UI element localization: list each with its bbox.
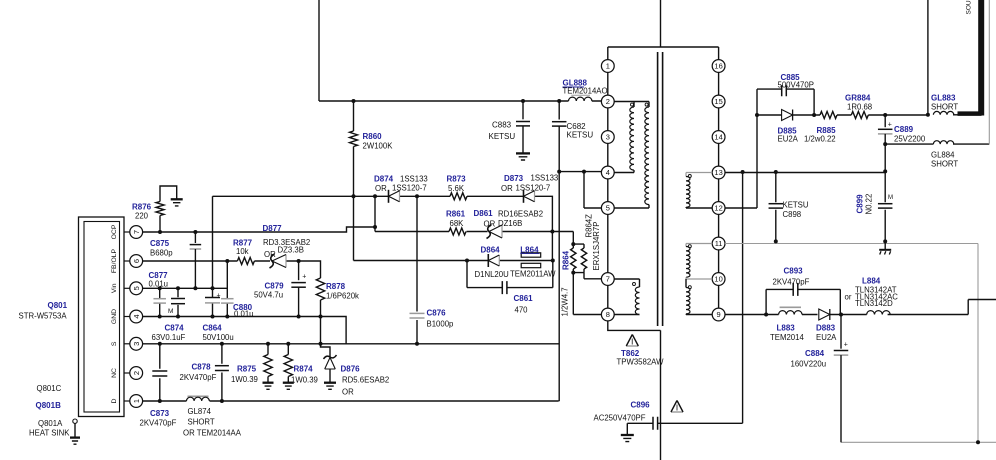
transformer pin 2 bbox=[601, 95, 614, 108]
svg-text:160V220u: 160V220u bbox=[791, 360, 827, 369]
wire pin9 output line bbox=[725, 300, 996, 315]
capacitor C889 (polarized) bbox=[884, 115, 886, 127]
svg-text:5.6K: 5.6K bbox=[448, 184, 465, 193]
resistor R874 bbox=[287, 344, 289, 355]
svg-text:C876: C876 bbox=[427, 309, 447, 318]
primary winding pin2-pin5 bbox=[645, 107, 649, 205]
transformer pin 14 bbox=[712, 131, 725, 144]
svg-text:ERX1SJ4R7P: ERX1SJ4R7P bbox=[592, 222, 601, 271]
svg-text:R875: R875 bbox=[237, 365, 257, 374]
svg-text:TEM2014AO: TEM2014AO bbox=[563, 87, 608, 96]
transformer pin 1 bbox=[601, 60, 614, 73]
junction C682 top bbox=[557, 99, 561, 103]
junction GL884 tap bbox=[883, 142, 887, 146]
resistor R860 bbox=[353, 101, 355, 131]
svg-text:NC: NC bbox=[111, 368, 118, 378]
svg-text:R860: R860 bbox=[363, 132, 383, 141]
capacitor C883 bbox=[522, 101, 524, 119]
svg-text:1W0.39: 1W0.39 bbox=[291, 376, 318, 385]
svg-text:2: 2 bbox=[132, 371, 141, 375]
wire x552 vertical to L864 row bbox=[551, 232, 553, 261]
svg-text:KETSU: KETSU bbox=[783, 201, 809, 210]
wire C896 riser bbox=[742, 172, 744, 423]
junction D885 cathode net bbox=[812, 113, 816, 117]
junction pin13 line at C898 bbox=[774, 170, 778, 174]
junction pin4 line at long vertical bbox=[557, 170, 561, 174]
svg-text:B1000p: B1000p bbox=[427, 320, 455, 329]
svg-text:C899: C899 bbox=[856, 194, 865, 214]
svg-text:TEM2011AW: TEM2011AW bbox=[510, 270, 556, 279]
svg-text:16: 16 bbox=[714, 62, 722, 71]
capacitor C874 bbox=[177, 288, 179, 316]
transformer pin 9 bbox=[712, 308, 725, 321]
svg-text:KETSU: KETSU bbox=[567, 131, 594, 140]
junction C874 top bbox=[176, 286, 180, 290]
IC pin 2 circle bbox=[130, 367, 143, 380]
junction C899 bottom bbox=[883, 239, 887, 243]
svg-text:OR: OR bbox=[484, 220, 496, 229]
junction R876 bottom on OCP line bbox=[158, 230, 162, 234]
wire rail from C864 vertical to D874 row bbox=[213, 196, 553, 231]
transformer pin 15 bbox=[712, 95, 725, 108]
svg-text:TPW3582AW: TPW3582AW bbox=[617, 358, 665, 367]
wire pin11 gray line bbox=[725, 243, 978, 245]
svg-text:R861: R861 bbox=[446, 210, 466, 219]
svg-text:+: + bbox=[217, 293, 221, 300]
primary winding pin2-pin4 bbox=[630, 107, 634, 170]
transformer pin 10 bbox=[712, 273, 725, 286]
svg-text:GL884: GL884 bbox=[931, 151, 955, 160]
junction C875 bottom on Vin line bbox=[193, 286, 197, 290]
snubber loop C885 bbox=[757, 89, 814, 115]
wire pins 1-16 top tee bbox=[608, 46, 719, 48]
svg-text:1: 1 bbox=[132, 399, 141, 403]
svg-text:C861: C861 bbox=[514, 294, 534, 303]
svg-text:7: 7 bbox=[606, 275, 610, 284]
junction C880 top on FB line bbox=[225, 259, 229, 263]
svg-text:9: 9 bbox=[717, 310, 721, 319]
svg-text:2KV470pF: 2KV470pF bbox=[773, 278, 810, 287]
transformer pin 7 bbox=[601, 273, 614, 286]
svg-text:C896: C896 bbox=[631, 401, 651, 410]
secondary winding pin10-pin9 bbox=[685, 279, 687, 288]
svg-text:C893: C893 bbox=[784, 267, 804, 276]
transformer pin 8 bbox=[601, 308, 614, 321]
svg-text:+: + bbox=[844, 342, 848, 349]
svg-text:12: 12 bbox=[714, 204, 722, 213]
svg-text:10: 10 bbox=[714, 275, 722, 284]
junction big vertical at Vin line bbox=[211, 286, 215, 290]
diode D864 bbox=[487, 254, 489, 267]
wire pin7 stub to winding bbox=[614, 279, 639, 287]
junction R878 at GND line bbox=[319, 315, 323, 319]
svg-text:B680p: B680p bbox=[150, 249, 173, 258]
svg-text:68K: 68K bbox=[450, 219, 465, 228]
svg-text:R885: R885 bbox=[817, 126, 837, 135]
warning triangle at C896 bbox=[671, 411, 683, 413]
wire GND pin4 line with jog down to S level bbox=[143, 317, 347, 344]
diode D873 bbox=[523, 190, 525, 203]
resistor R878 bbox=[316, 278, 324, 300]
junction C861 tap bbox=[465, 259, 469, 263]
svg-text:EU2A: EU2A bbox=[816, 333, 837, 342]
zener diode D876 vertical bbox=[324, 355, 337, 359]
svg-text:C874: C874 bbox=[165, 324, 185, 333]
inductor GL883 bbox=[933, 111, 953, 114]
thick output bus stub bbox=[958, 111, 982, 116]
svg-text:2KV470pF: 2KV470pF bbox=[140, 419, 177, 428]
wire primary box left edge bbox=[318, 0, 320, 101]
svg-text:3: 3 bbox=[132, 342, 141, 346]
svg-text:AC250V470PF: AC250V470PF bbox=[594, 414, 646, 423]
junction C878 bottom bbox=[220, 399, 224, 403]
svg-text:4: 4 bbox=[132, 314, 141, 318]
capacitor C898 bbox=[775, 172, 777, 241]
junction C879 bottom bbox=[297, 315, 301, 319]
svg-text:C879: C879 bbox=[265, 282, 285, 291]
svg-text:D873: D873 bbox=[504, 174, 524, 183]
svg-text:1R0.68: 1R0.68 bbox=[847, 103, 872, 112]
svg-text:50V4.7u: 50V4.7u bbox=[254, 291, 283, 300]
svg-text:S: S bbox=[111, 341, 118, 346]
svg-text:R876: R876 bbox=[132, 203, 152, 212]
svg-text:1/2W4.7: 1/2W4.7 bbox=[561, 287, 570, 316]
transformer pin 13 bbox=[712, 166, 725, 179]
wire top feed vertical to transformer bbox=[660, 0, 662, 47]
svg-text:6: 6 bbox=[132, 259, 141, 263]
svg-text:SOUND: SOUND bbox=[966, 0, 973, 15]
resistor R876 bbox=[159, 216, 161, 233]
capacitor C873 bbox=[159, 344, 161, 401]
svg-text:GL883: GL883 bbox=[931, 94, 956, 103]
svg-text:TEM2014: TEM2014 bbox=[770, 333, 804, 342]
capacitor C861 branch bbox=[467, 261, 553, 288]
capacitor C899 bbox=[884, 171, 886, 241]
svg-text:0.01u: 0.01u bbox=[149, 280, 169, 289]
svg-text:Q801: Q801 bbox=[48, 301, 68, 310]
junction C873 top bbox=[158, 342, 162, 346]
junction D861 row at x552 bbox=[550, 230, 554, 234]
snubber loop C893 bbox=[766, 289, 840, 314]
resistor R864 (parallel pair) bbox=[571, 248, 576, 269]
svg-text:25V2200: 25V2200 bbox=[894, 134, 926, 143]
svg-text:3: 3 bbox=[606, 133, 610, 142]
svg-text:EU2A: EU2A bbox=[778, 135, 799, 144]
junction R875 top bbox=[266, 342, 270, 346]
zener diode D877 bbox=[270, 254, 275, 268]
svg-text:L883: L883 bbox=[777, 324, 796, 333]
wire secondary main line bbox=[757, 114, 928, 116]
svg-text:1: 1 bbox=[606, 62, 610, 71]
wire gray loop bottom bbox=[841, 441, 996, 443]
ground below C883 bbox=[516, 152, 530, 154]
svg-text:50V100u: 50V100u bbox=[203, 333, 234, 342]
IC pin 3 lead bbox=[124, 343, 130, 345]
junction C883 top bbox=[521, 99, 525, 103]
svg-text:D: D bbox=[111, 398, 118, 403]
junction GL883 left bbox=[926, 113, 930, 117]
svg-text:C875: C875 bbox=[150, 239, 170, 248]
junction R874 top bbox=[286, 342, 290, 346]
svg-text:5: 5 bbox=[606, 204, 610, 213]
svg-text:OR TEM2014AA: OR TEM2014AA bbox=[183, 429, 242, 438]
junction C873 bottom bbox=[158, 399, 162, 403]
svg-text:TLN3142D: TLN3142D bbox=[855, 299, 893, 308]
transformer pin 4 bbox=[601, 166, 614, 179]
wire top rail node from box to GL888 bbox=[319, 100, 601, 102]
diode D883 bbox=[829, 309, 831, 320]
wire pin13 output ground line bbox=[725, 172, 885, 174]
svg-text:D874: D874 bbox=[374, 175, 394, 184]
junction R864 bottom jog bbox=[571, 271, 575, 275]
capacitor C877 bbox=[159, 288, 161, 316]
capacitor C864 (polarized) bbox=[205, 297, 220, 299]
junction OCP jog to loop vertical bbox=[373, 225, 377, 229]
svg-text:11: 11 bbox=[715, 239, 723, 248]
IC pin 6 circle bbox=[130, 255, 143, 268]
wire D864-L864 row from R860 vertical bbox=[354, 196, 553, 260]
winding polarity dot primary 2 bbox=[645, 103, 648, 106]
ground heat sink bbox=[70, 436, 80, 438]
svg-text:R874: R874 bbox=[294, 365, 314, 374]
chassis ground below pin11 line bbox=[884, 241, 886, 249]
inductor GL874 with short bar bbox=[188, 395, 209, 397]
svg-text:OR: OR bbox=[342, 388, 354, 397]
svg-text:10k: 10k bbox=[236, 247, 249, 256]
svg-text:Q801A: Q801A bbox=[38, 419, 63, 428]
ferrite bead L864 (two bars) bbox=[521, 253, 541, 257]
IC pin 3 circle bbox=[130, 337, 143, 350]
svg-text:8: 8 bbox=[606, 310, 610, 319]
svg-text:OR: OR bbox=[264, 250, 276, 259]
svg-text:OR: OR bbox=[375, 184, 387, 193]
svg-text:1SS120-7: 1SS120-7 bbox=[392, 183, 427, 192]
winding polarity dot pin7 winding bbox=[633, 283, 636, 286]
wire R864 jog to pin 7 bbox=[584, 273, 601, 279]
junction pin13 line at C889 vertical bbox=[883, 169, 887, 173]
svg-text:4: 4 bbox=[606, 168, 610, 177]
svg-text:+: + bbox=[302, 274, 306, 281]
ground below R875 bbox=[263, 382, 274, 384]
svg-text:C873: C873 bbox=[150, 409, 170, 418]
wire top-right thin vertical bbox=[927, 0, 929, 115]
junction rail/C876 top bbox=[415, 194, 419, 198]
wire pin4 stub bbox=[614, 172, 634, 174]
svg-text:C883: C883 bbox=[492, 121, 512, 130]
svg-text:2: 2 bbox=[606, 97, 610, 106]
transformer pin 3 bbox=[601, 131, 614, 144]
junction C893 left bbox=[764, 313, 768, 317]
capacitor C896 bbox=[627, 423, 742, 434]
svg-text:7: 7 bbox=[132, 230, 141, 234]
IC pin 1 lead bbox=[124, 400, 130, 402]
svg-text:2KV470pF: 2KV470pF bbox=[180, 373, 217, 382]
resistor R873 bbox=[450, 193, 467, 200]
resistor GR884 bbox=[851, 112, 868, 119]
resistor R875 bbox=[267, 344, 269, 355]
winding polarity dot primary 1 bbox=[631, 103, 634, 106]
inductor L884 bbox=[867, 311, 890, 315]
IC pin 7 circle bbox=[130, 226, 143, 239]
junction R860 top bbox=[352, 99, 356, 103]
wire S pin3 line bbox=[143, 343, 560, 345]
svg-text:N0.22: N0.22 bbox=[865, 194, 874, 215]
wire FB/OLP pin6 line bbox=[143, 261, 321, 278]
IC Q801 inner box bbox=[84, 222, 120, 413]
wire D pin1 line bbox=[143, 400, 559, 402]
svg-text:D876: D876 bbox=[341, 365, 361, 374]
IC pin 5 lead bbox=[124, 287, 130, 289]
resistor R885 bbox=[820, 112, 837, 119]
junction C880 bottom bbox=[225, 315, 229, 319]
IC pin 6 lead bbox=[124, 260, 130, 262]
junction pin4/pin5 link bbox=[582, 170, 586, 174]
wire pin2 stub to primary winding tops bbox=[614, 102, 649, 108]
svg-text:Q801B: Q801B bbox=[36, 401, 62, 410]
underline mark under TEM2014AO bbox=[571, 94, 590, 96]
transformer pin 5 bbox=[601, 202, 614, 215]
capacitor C875 bbox=[194, 232, 196, 243]
svg-text:FB/OLP: FB/OLP bbox=[111, 248, 118, 273]
wire D861 row to R864 bbox=[573, 232, 601, 315]
thick output bus vertical bbox=[978, 0, 984, 116]
wire gray loop right vertical bbox=[977, 244, 979, 443]
svg-text:GL874: GL874 bbox=[188, 407, 212, 416]
svg-text:OR: OR bbox=[501, 184, 513, 193]
svg-text:500V470P: 500V470P bbox=[778, 81, 814, 90]
junction pin13 line at C896 vertical bbox=[741, 170, 745, 174]
junction C878 top bbox=[220, 342, 224, 346]
svg-text:DZ3.3B: DZ3.3B bbox=[278, 246, 304, 255]
junction C889 top bbox=[883, 113, 887, 117]
junction R878 at S line bbox=[319, 342, 323, 346]
transformer core lines bbox=[657, 52, 659, 326]
svg-text:C878: C878 bbox=[192, 363, 212, 372]
svg-text:GND: GND bbox=[111, 309, 118, 324]
svg-text:OCP: OCP bbox=[111, 224, 118, 239]
svg-text:HEAT SINK: HEAT SINK bbox=[29, 429, 70, 438]
junction L864 right corner bbox=[551, 259, 555, 263]
svg-text:C864: C864 bbox=[203, 324, 223, 333]
junction C874 bottom bbox=[176, 315, 180, 319]
svg-text:D861: D861 bbox=[474, 209, 494, 218]
junction C877 bottom bbox=[158, 315, 162, 319]
svg-text:2W100K: 2W100K bbox=[363, 142, 394, 151]
svg-text:STR-W5753A: STR-W5753A bbox=[19, 311, 68, 320]
resistor R861 bbox=[449, 228, 466, 235]
ground below R874 bbox=[283, 382, 294, 384]
junction C875 top bbox=[193, 230, 197, 234]
svg-text:D864: D864 bbox=[481, 246, 501, 255]
inductor L883 with bar bbox=[780, 306, 801, 308]
svg-text:C889: C889 bbox=[894, 125, 914, 134]
svg-text:63V0.1uF: 63V0.1uF bbox=[152, 333, 186, 342]
wire Vin pin5 line bbox=[143, 287, 228, 289]
svg-text:SHORT: SHORT bbox=[931, 159, 958, 168]
svg-text:1W0.39: 1W0.39 bbox=[231, 375, 258, 384]
ground at R876 bbox=[171, 198, 183, 200]
ground below D876 bbox=[324, 382, 336, 384]
svg-text:+: + bbox=[888, 122, 892, 129]
svg-text:R873: R873 bbox=[447, 175, 467, 184]
svg-text:Vin: Vin bbox=[111, 283, 118, 293]
transformer pin 11 bbox=[712, 237, 725, 250]
zener diode D861 bbox=[487, 225, 492, 239]
wire shield drop to C896 bbox=[660, 330, 662, 460]
svg-text:SHORT: SHORT bbox=[931, 102, 958, 111]
IC pin 2 lead bbox=[124, 372, 130, 374]
svg-text:D877: D877 bbox=[263, 224, 283, 233]
svg-text:220: 220 bbox=[135, 212, 149, 221]
junction rail/loop left vertical bbox=[373, 194, 377, 198]
resistor R877 bbox=[237, 258, 254, 265]
capacitor C884 (polarized) bbox=[840, 315, 842, 349]
wire gray right-edge vertical bbox=[988, 0, 990, 144]
capacitor C878 bbox=[221, 344, 223, 401]
wire pin4/pin5 left link bbox=[559, 172, 601, 208]
svg-text:1SS120-7: 1SS120-7 bbox=[516, 184, 551, 193]
IC pin 5 circle bbox=[130, 282, 143, 295]
svg-text:KETSU: KETSU bbox=[489, 132, 516, 141]
IC pin 4 circle bbox=[130, 310, 143, 323]
svg-text:5: 5 bbox=[132, 286, 141, 290]
heat sink terminal circle bbox=[73, 419, 77, 423]
wire OCP pin7 line with jog to diode loop bbox=[143, 227, 375, 232]
svg-text:R864: R864 bbox=[562, 250, 571, 270]
capacitor C682 bbox=[552, 121, 567, 123]
svg-text:470: 470 bbox=[515, 306, 529, 315]
svg-text:1/2w0.22: 1/2w0.22 bbox=[804, 135, 836, 144]
wire heat sink to ground bbox=[74, 423, 76, 437]
transformer pin 16 bbox=[712, 60, 725, 73]
primary winding pin7-pin8 bbox=[635, 287, 639, 315]
junction C879 top on FB line bbox=[297, 259, 301, 263]
svg-text:L884: L884 bbox=[862, 276, 881, 285]
svg-text:RD5.6ESAB2: RD5.6ESAB2 bbox=[342, 376, 389, 385]
IC pin 4 lead bbox=[124, 316, 130, 318]
capacitor C879 (polarized) bbox=[298, 261, 300, 280]
svg-text:1/6P620k: 1/6P620k bbox=[326, 292, 359, 301]
secondary winding pin13-pin12 bbox=[686, 173, 712, 177]
svg-text:R878: R878 bbox=[326, 282, 346, 291]
svg-text:RD16ESAB2: RD16ESAB2 bbox=[498, 209, 543, 218]
secondary winding pin11-pin10 bbox=[686, 244, 712, 247]
wire pin12 to D885 feed bbox=[725, 115, 757, 208]
junction C898 bottom bbox=[774, 239, 778, 243]
junction gray loop corner bbox=[976, 440, 980, 444]
svg-text:or: or bbox=[845, 292, 852, 301]
svg-text:GR884: GR884 bbox=[845, 94, 871, 103]
transformer right pin column line bbox=[718, 47, 720, 321]
svg-text:14: 14 bbox=[714, 133, 722, 142]
junction C877 top bbox=[158, 286, 162, 290]
IC pin 7 lead bbox=[124, 231, 130, 233]
wire long primary vertical (snubber/ground bus) bbox=[558, 101, 560, 401]
diode D885 bbox=[792, 110, 794, 121]
svg-text:1SS133: 1SS133 bbox=[531, 174, 559, 183]
svg-text:C898: C898 bbox=[783, 210, 802, 219]
svg-text:D883: D883 bbox=[816, 324, 836, 333]
svg-text:C884: C884 bbox=[805, 349, 825, 358]
capacitor C876 bbox=[416, 196, 418, 343]
svg-text:SHORT: SHORT bbox=[188, 418, 215, 427]
junction C864 bottom bbox=[211, 315, 215, 319]
svg-text:13: 13 bbox=[714, 168, 722, 177]
IC Q801 STR-W5753A outer box bbox=[79, 217, 125, 417]
transformer left pin column line bbox=[608, 47, 661, 330]
warning triangle at transformer bbox=[626, 345, 638, 347]
ground at C896 bbox=[621, 434, 634, 436]
